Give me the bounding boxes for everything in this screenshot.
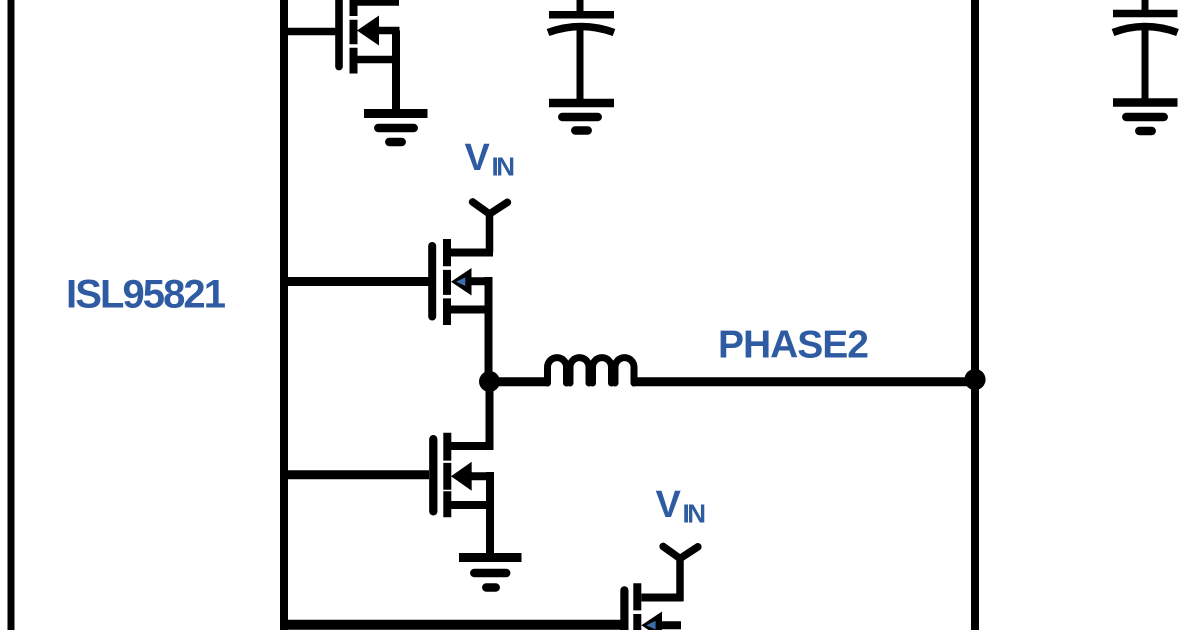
M2 body arrow blue core xyxy=(456,277,465,286)
M4 gate bar xyxy=(620,590,628,630)
wire phase node to inductor xyxy=(490,377,550,386)
IC box right edge (pin rail) xyxy=(280,0,288,630)
M4 body stub xyxy=(660,621,681,629)
M2 channel segments xyxy=(443,239,451,325)
transistor M3 (phase-2 low-side MOSFET) xyxy=(284,381,490,554)
M3 gate bar xyxy=(429,439,437,511)
VIN power Y symbol (bottom) xyxy=(663,546,698,601)
IC box left border xyxy=(8,0,15,630)
M4 gate wire xyxy=(284,620,622,630)
M1 source lead xyxy=(392,31,400,112)
inductor L2 xyxy=(548,358,635,383)
svg-text:V: V xyxy=(656,484,682,526)
M1 gate bar xyxy=(335,0,343,67)
M2 drain stub xyxy=(451,249,490,257)
M4 drain stub xyxy=(641,594,681,602)
C1 bottom lead xyxy=(577,29,584,100)
M2 gate bar xyxy=(428,246,436,317)
output rail (right vertical) xyxy=(971,0,979,630)
M3 channel segments xyxy=(443,433,451,517)
VIN power Y symbol xyxy=(473,202,508,253)
transistor M1 (top-left low-side MOSFET, cropped at top) xyxy=(284,0,400,111)
M3 body stub xyxy=(470,472,490,480)
label VIN (phase-2 high side) xyxy=(465,137,516,182)
M1 channel segments xyxy=(350,0,358,74)
capacitor C2 xyxy=(1113,0,1178,100)
M4 drain lead from VIN xyxy=(677,558,684,602)
M3 gate wire xyxy=(284,470,429,479)
svg-text:V: V xyxy=(465,137,491,179)
C2 top lead xyxy=(1142,0,1149,13)
M2 body stub xyxy=(470,277,488,285)
C2 curved plate xyxy=(1113,27,1178,33)
C1 flat plate xyxy=(549,11,614,19)
ground G4 xyxy=(459,558,522,588)
svg-text:IN: IN xyxy=(492,152,516,182)
M1 gate wire xyxy=(284,28,336,36)
M3 source lead to ground xyxy=(486,472,494,554)
M2 body arrow xyxy=(451,268,472,296)
transistor M4 (phase-1 high-side MOSFET, cropped at bottom) xyxy=(284,558,681,630)
M1 drain stub xyxy=(357,0,399,6)
svg-text:ISL95821: ISL95821 xyxy=(66,273,226,317)
ground G3 xyxy=(1113,103,1178,132)
transistor M2 (phase-2 high-side MOSFET) xyxy=(284,214,490,381)
wire inductor to output rail xyxy=(632,377,972,386)
M4 body arrow blue core xyxy=(646,621,655,630)
M3 drain lead from phase node xyxy=(486,381,494,450)
M4 body arrow xyxy=(641,612,662,630)
capacitor C1 xyxy=(548,0,614,100)
M3 source stub xyxy=(451,501,490,509)
phase node junction dot xyxy=(479,371,500,392)
output rail junction dot xyxy=(964,369,985,390)
M2 source lead to phase node xyxy=(485,277,493,381)
C2 flat plate xyxy=(1113,10,1178,18)
M1 body stub xyxy=(377,27,400,35)
svg-text:PHASE2: PHASE2 xyxy=(718,324,869,367)
C1 curved plate xyxy=(548,27,614,33)
M2 source stub xyxy=(451,306,488,314)
M1 body arrow xyxy=(357,16,379,46)
C2 bottom lead xyxy=(1142,29,1149,100)
M3 drain stub xyxy=(451,442,490,450)
label VIN (phase-1 high side, bottom) xyxy=(656,484,707,529)
M3 body arrow xyxy=(451,462,472,491)
C1 top lead xyxy=(577,0,584,14)
M4 channel segments xyxy=(633,583,641,630)
M1 source stub xyxy=(357,56,400,64)
ground G1 xyxy=(364,114,428,143)
M2 drain lead from VIN xyxy=(486,214,493,257)
M2 gate wire xyxy=(284,277,432,286)
svg-text:IN: IN xyxy=(683,499,707,529)
ground G2 xyxy=(549,103,614,131)
